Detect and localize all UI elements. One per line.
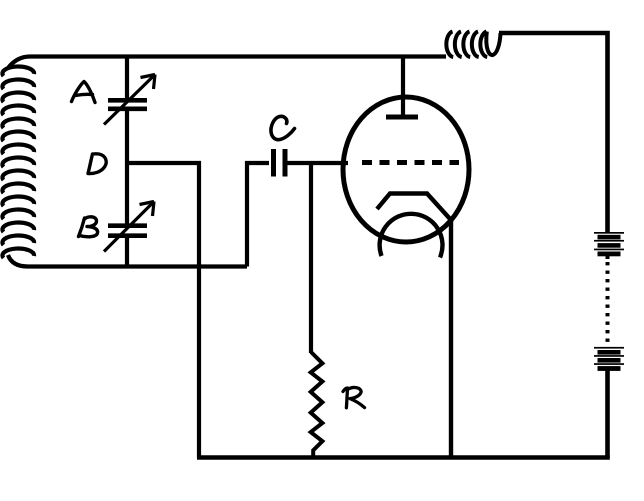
resistor R [311,352,323,458]
tube filament heater arc [380,214,443,258]
tube grid (dashed) [362,160,459,165]
tube plate (anode) lead and bar [386,57,418,118]
variable capacitor A [104,75,155,125]
wire battery to bottom rail [605,370,610,458]
label D [88,154,106,174]
inductor L1 (left tank coil) [2,66,34,258]
battery BT2 [594,347,624,371]
capacitor C [274,149,286,177]
wire choke to top right corner and down [499,33,608,232]
wire capacitor branch vertical (top rail to cap A) [125,57,129,101]
wire bottom rail [197,455,610,460]
wire grid-leak tap down to resistor R [309,163,313,353]
wire coil bottom up to capacitor C [247,163,269,267]
label A [72,82,96,103]
wire cap A to cap B (through node D) [125,109,129,225]
label C [271,116,295,139]
label R [343,387,365,407]
wire capacitor C to tube grid [285,161,348,165]
wire top rail [8,57,446,69]
dashed wire between battery sections [606,256,610,259]
variable capacitor B [104,202,154,252]
label B [79,217,98,237]
tube cathode [377,194,451,458]
battery BT1 [594,232,624,256]
vacuum tube V1 envelope [343,97,469,242]
wire coil bottom [8,255,247,267]
wire cap B bottom to coil bottom wire [125,236,129,267]
node D wire to ground rail [127,163,199,458]
inductor L2 (RF choke) [446,32,500,58]
